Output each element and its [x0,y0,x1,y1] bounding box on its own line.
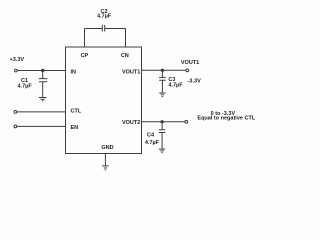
svg-text:Equal to negative CTL: Equal to negative CTL [197,116,255,122]
ground (C4) [159,149,165,153]
svg-text:-3.3V: -3.3V [188,78,201,84]
wire C1 top [42,71,44,79]
ground (GND pin) [102,166,108,170]
ground (C1) [39,98,47,101]
junction node IN/C1 [41,69,44,72]
capacitor C4 [159,130,166,133]
capacitor C1 [39,79,47,82]
svg-text:+3.3V: +3.3V [10,57,25,63]
svg-text:CTL: CTL [71,108,82,114]
svg-text:C4: C4 [147,133,155,139]
capacitor C2 [102,25,104,32]
wire C3 bottom [161,80,163,93]
wire C3 top [161,70,163,77]
ground (C3) [159,93,165,97]
svg-text:GND: GND [101,145,113,151]
wire top right segment [105,28,126,30]
terminal EN [14,125,17,128]
wire C4 bottom [161,133,163,150]
junction node VOUT2/C4 [160,120,163,123]
wire CTL [17,111,66,113]
wire IN [17,70,65,72]
terminal VOUT2 output [185,120,188,123]
svg-text:CP: CP [81,53,89,59]
terminal VOUT1 output [186,69,189,72]
wire GND stem [104,154,106,166]
IC body U1 [66,47,142,154]
svg-text:IN: IN [71,70,77,76]
svg-text:VOUT2: VOUT2 [122,120,140,126]
terminal +3.3V input [15,69,18,72]
svg-text:VOUT1: VOUT1 [122,70,140,76]
svg-text:4.7µF: 4.7µF [97,13,112,19]
capacitor C3 [159,77,166,80]
wire CN riser [125,29,127,48]
wire EN [17,125,66,127]
wire VOUT1 [142,69,186,71]
svg-text:4.7µF: 4.7µF [168,83,183,89]
svg-text:VOUT1: VOUT1 [181,60,199,66]
wire C4 top [161,122,163,130]
wire top left segment [85,28,103,30]
wire C1 bottom [42,82,44,98]
svg-text:EN: EN [71,125,79,131]
svg-text:4.7µF: 4.7µF [145,140,160,146]
junction node VOUT1/C3 [161,69,164,72]
svg-text:CN: CN [121,53,129,59]
wire CP riser [84,29,86,48]
svg-text:4.7µF: 4.7µF [18,83,33,89]
terminal CTL [14,111,17,114]
wire VOUT2 [142,121,185,123]
